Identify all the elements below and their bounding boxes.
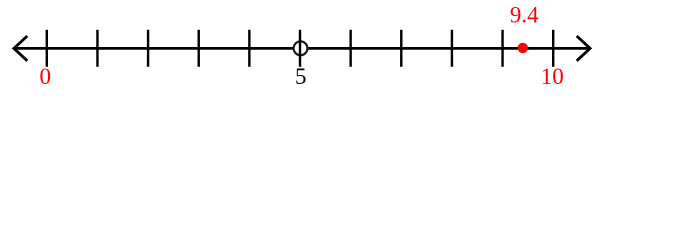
svg-text:10: 10	[541, 64, 564, 89]
svg-text:9.4: 9.4	[510, 2, 539, 27]
tick 10	[552, 30, 554, 67]
tick 4	[248, 30, 250, 67]
tick 2	[147, 30, 149, 67]
tick 9	[501, 30, 503, 67]
left arrowhead	[14, 36, 27, 61]
tick 1	[96, 30, 98, 67]
svg-text:0: 0	[40, 64, 52, 89]
number line axis	[15, 47, 589, 50]
tick 7	[400, 30, 402, 67]
tick 5 (drawn over circle)	[299, 30, 301, 67]
red point at 9.4	[518, 43, 528, 53]
tick 8	[451, 30, 453, 67]
tick 3	[198, 30, 200, 67]
svg-text:5: 5	[295, 64, 307, 89]
right arrowhead	[577, 36, 590, 61]
open circle at 5	[294, 41, 308, 55]
tick 6	[349, 30, 351, 67]
tick 0	[46, 30, 48, 67]
